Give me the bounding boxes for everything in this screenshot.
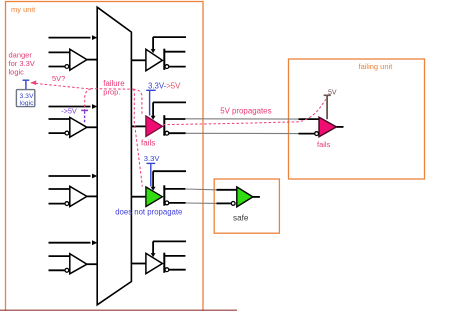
svg-text:->5V: ->5V bbox=[61, 107, 77, 116]
svg-text:5V?: 5V? bbox=[52, 74, 65, 83]
svg-text:my unit: my unit bbox=[11, 5, 36, 14]
svg-text:5V propagates: 5V propagates bbox=[220, 106, 271, 115]
svg-text:3.3V: 3.3V bbox=[20, 93, 34, 100]
svg-text:prop.: prop. bbox=[103, 88, 120, 97]
svg-text:fails: fails bbox=[141, 138, 155, 147]
svg-text:logic: logic bbox=[20, 100, 35, 107]
svg-text:3.3V->5V: 3.3V->5V bbox=[148, 81, 181, 90]
svg-text:safe: safe bbox=[233, 214, 249, 223]
svg-text:3.3V: 3.3V bbox=[144, 154, 161, 163]
svg-text:logic: logic bbox=[9, 67, 25, 76]
svg-text:5V: 5V bbox=[328, 89, 337, 96]
svg-text:fails: fails bbox=[317, 140, 331, 149]
svg-text:failing unit: failing unit bbox=[359, 62, 394, 71]
svg-text:does not propagate: does not propagate bbox=[115, 208, 182, 217]
